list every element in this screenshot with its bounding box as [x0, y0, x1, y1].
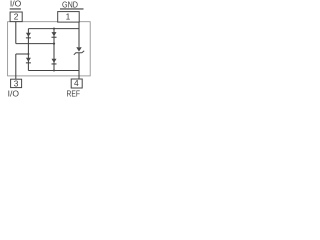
- svg-text:I/O: I/O: [8, 89, 20, 99]
- svg-text:GND: GND: [62, 0, 78, 9]
- pin box 3: [11, 79, 22, 87]
- svg-text:1: 1: [66, 12, 71, 22]
- svg-text:I/O: I/O: [10, 0, 22, 9]
- pin box 1: [58, 12, 79, 23]
- pin box 4: [71, 79, 82, 88]
- wire branch 1: [27, 29, 29, 71]
- diode D4 (branch2 bottom): [52, 59, 57, 65]
- wire GND top rail: [28, 28, 79, 30]
- junction node (54,28.6): [53, 28, 55, 30]
- diode D3 (branch1 bottom): [26, 58, 31, 64]
- svg-text:3: 3: [14, 79, 19, 89]
- wire pin2 drop: [15, 22, 17, 44]
- diode D2 (branch2 top): [52, 32, 57, 38]
- package outline: [8, 22, 91, 76]
- background: [0, 0, 100, 100]
- svg-text:4: 4: [74, 78, 79, 88]
- wire rail A: [16, 43, 54, 45]
- pin 2 lead bar: [10, 8, 21, 9]
- junction node (28.4,54): [27, 53, 29, 55]
- wire pin3 drop: [15, 54, 17, 79]
- pin 1 lead bar: [60, 8, 84, 9]
- internal circuit wires: [16, 22, 79, 80]
- junction node (54,43.6): [53, 43, 55, 45]
- wire zener to pin4: [78, 53, 80, 79]
- wire branch 2: [53, 29, 55, 71]
- wire pin1 GND drop: [78, 22, 80, 47]
- svg-text:REF: REF: [66, 89, 80, 99]
- diode D1 (branch1 top): [26, 33, 31, 39]
- wire REF bottom rail: [28, 70, 79, 72]
- pin box 2: [10, 12, 22, 22]
- junction node (54,70.5): [53, 69, 55, 71]
- wire rail B: [16, 53, 29, 55]
- svg-text:2: 2: [14, 11, 19, 21]
- zener Z1: [74, 47, 84, 55]
